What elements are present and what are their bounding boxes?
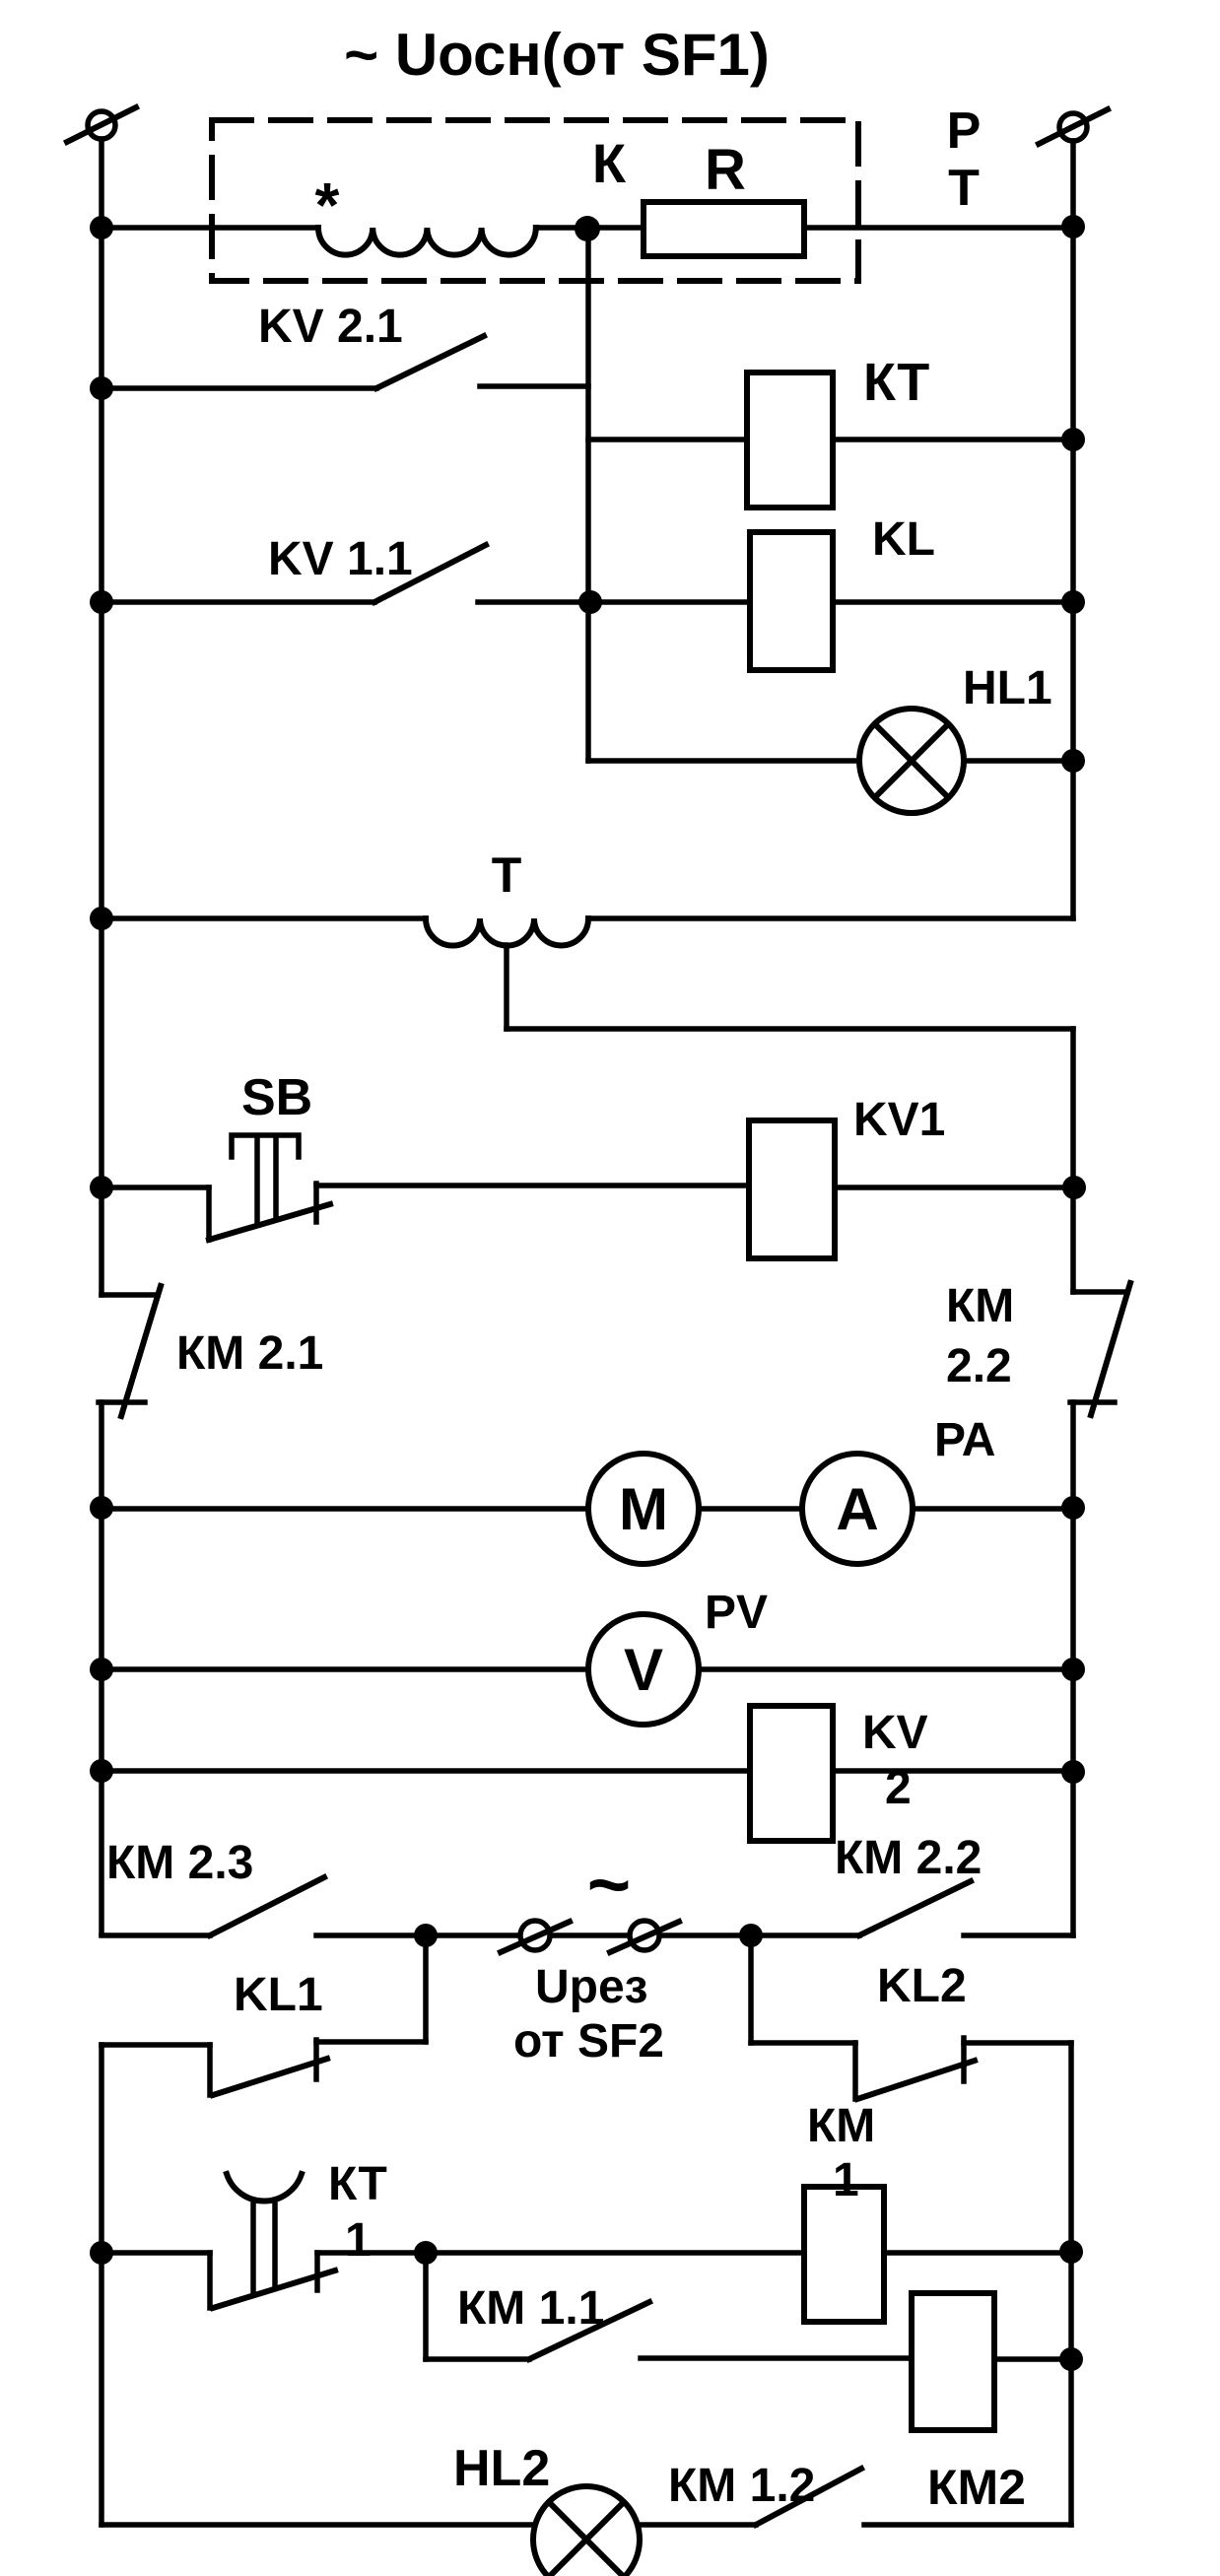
node KV2 row right bbox=[1061, 1760, 1085, 1784]
label K bbox=[592, 132, 627, 194]
svg-text:KV: KV bbox=[862, 1707, 928, 1759]
node HL1 right bbox=[1061, 749, 1085, 773]
label PA bbox=[934, 1414, 995, 1466]
svg-text:КМ: КМ bbox=[807, 2100, 875, 2152]
wire left rail lower bbox=[99, 2045, 104, 2525]
svg-text:~ Uосн(от SF1): ~ Uосн(от SF1) bbox=[344, 22, 770, 88]
wire KM2 to right rail bbox=[994, 2356, 1071, 2362]
terminal left bbox=[67, 107, 136, 142]
label P bbox=[947, 102, 982, 160]
svg-text:PV: PV bbox=[705, 1587, 768, 1639]
wire V row left bbox=[102, 1666, 588, 1672]
node KV1.1 mid bbox=[578, 590, 602, 614]
svg-text:КТ: КТ bbox=[863, 353, 929, 412]
svg-text:HL2: HL2 bbox=[453, 2440, 550, 2497]
wire M row left bbox=[102, 1506, 588, 1512]
label KL1 bbox=[234, 1969, 323, 2021]
node KV1 right bbox=[1062, 1176, 1086, 1199]
contact KV 1.1 bbox=[102, 545, 590, 602]
node V row right bbox=[1061, 1658, 1085, 1681]
label KV 1.1 bbox=[268, 533, 413, 585]
label KT1a bbox=[328, 2158, 387, 2210]
lamp HL1 bbox=[859, 709, 964, 813]
svg-text:КМ 1.1: КМ 1.1 bbox=[457, 2282, 604, 2335]
wire drop left branch bbox=[423, 1935, 429, 2042]
wire top row left bbox=[102, 225, 318, 231]
svg-text:КМ 1.2: КМ 1.2 bbox=[668, 2460, 815, 2512]
label Urez bbox=[535, 1961, 648, 2013]
ammeter A bbox=[802, 1454, 913, 1564]
wire right rail KL2 down bbox=[1068, 2043, 1074, 2252]
contact KM 2.2 vertical bbox=[1070, 1283, 1130, 1935]
node K bbox=[575, 216, 600, 241]
contact KM 2.1 vertical bbox=[99, 1286, 161, 1934]
svg-text:SB: SB bbox=[241, 1069, 312, 1126]
wire T row right bbox=[588, 915, 1073, 921]
label KV bbox=[862, 1707, 928, 1759]
wire M to A bbox=[699, 1506, 802, 1512]
label KM 2.2b bbox=[835, 1832, 982, 1884]
label PV bbox=[705, 1587, 768, 1639]
wire V to right rail bbox=[699, 1666, 1073, 1672]
wire KV1 to right rail bbox=[835, 1185, 1073, 1190]
wire terminal to terminal bbox=[552, 1932, 628, 1938]
wire right rail lower bbox=[1068, 2252, 1074, 2525]
node KV2 row left bbox=[90, 1759, 113, 1783]
svg-text:R: R bbox=[705, 138, 746, 202]
svg-text:КМ 2.3: КМ 2.3 bbox=[106, 1837, 253, 1889]
contact KV 2.1 bbox=[102, 336, 588, 388]
inductor K winding bbox=[318, 228, 536, 255]
svg-text:К: К bbox=[592, 132, 627, 194]
contact KL2 bbox=[751, 2038, 1071, 2099]
node KV2.1 left bbox=[90, 376, 113, 400]
wire KM1 row bbox=[426, 2250, 804, 2256]
wire HL1 row right bbox=[964, 758, 1073, 764]
svg-text:1: 1 bbox=[833, 2154, 859, 2206]
svg-text:от SF2: от SF2 bbox=[513, 2015, 664, 2068]
wire terminal to node bbox=[661, 1932, 751, 1938]
node KV1.1 left bbox=[90, 590, 113, 614]
motor M bbox=[588, 1454, 699, 1564]
label KT1b bbox=[345, 2214, 372, 2267]
label ot SF2 bbox=[513, 2015, 664, 2068]
wire right rail upper bbox=[1070, 141, 1076, 918]
lamp HL2 bbox=[533, 2486, 640, 2576]
svg-text:2.2: 2.2 bbox=[946, 1340, 1012, 1392]
pushbutton SB bbox=[102, 1135, 749, 1240]
node KT1 left bbox=[90, 2241, 113, 2265]
node top left bbox=[90, 216, 113, 239]
label KM1a bbox=[807, 2100, 875, 2152]
contact KT1 time delay bbox=[102, 2174, 426, 2308]
node T row left bbox=[90, 907, 113, 930]
svg-text:1: 1 bbox=[345, 2214, 372, 2267]
node Urez right bbox=[739, 1924, 763, 1947]
contact KM 1.1 bbox=[426, 2253, 912, 2359]
wire T row left bbox=[102, 915, 426, 921]
label KL bbox=[872, 513, 935, 566]
contact KL1 bbox=[102, 2040, 426, 2095]
wire right rail mid bbox=[1070, 1029, 1076, 1292]
node M row left bbox=[90, 1496, 113, 1520]
relay coil KV1 bbox=[749, 1120, 835, 1258]
contact KM 1.2 bbox=[639, 2469, 1071, 2525]
contact KM 2.3 bbox=[102, 1877, 426, 1935]
wire KV2 row right bbox=[833, 1768, 1073, 1774]
svg-text:А: А bbox=[836, 1476, 878, 1542]
relay coil KT bbox=[747, 373, 833, 508]
label HL1 bbox=[963, 662, 1052, 714]
label KV 2.1 bbox=[258, 301, 403, 353]
wire K to resistor bbox=[536, 225, 644, 231]
label KV1 bbox=[853, 1094, 945, 1146]
svg-text:КМ2: КМ2 bbox=[927, 2460, 1026, 2515]
wire KT row right bbox=[833, 437, 1073, 442]
svg-text:КМ: КМ bbox=[946, 1280, 1014, 1332]
wire T tap horizontal bbox=[507, 1026, 1073, 1032]
wire KT row left bbox=[588, 437, 747, 442]
svg-text:KL: KL bbox=[872, 513, 935, 566]
wire HL1 row left bbox=[588, 758, 859, 764]
label R bbox=[705, 138, 746, 202]
dashed box PT bbox=[212, 120, 858, 281]
node top right bbox=[1061, 215, 1085, 238]
resistor R bbox=[644, 202, 804, 256]
svg-text:V: V bbox=[624, 1637, 663, 1703]
relay coil KL bbox=[750, 532, 833, 670]
label KM 1.1 bbox=[457, 2282, 604, 2335]
node KT1 right bbox=[414, 2241, 438, 2265]
label HL2 bbox=[453, 2440, 550, 2497]
svg-text:HL1: HL1 bbox=[963, 662, 1052, 714]
label ~ bbox=[587, 1843, 631, 1927]
label KL2 bbox=[877, 1960, 967, 2012]
title label ~Uosn(ot SF1) bbox=[344, 22, 770, 88]
label KM1b bbox=[833, 2154, 859, 2206]
label KM bbox=[946, 1280, 1014, 1332]
svg-text:Р: Р bbox=[947, 102, 982, 160]
label KT bbox=[863, 353, 929, 412]
node V row left bbox=[90, 1658, 113, 1681]
node KT right bbox=[1061, 428, 1085, 451]
wire bottom row left bbox=[102, 2522, 534, 2528]
transformer T winding bbox=[426, 918, 588, 945]
node Urez left bbox=[414, 1924, 438, 1947]
wire node to terminal 1 bbox=[426, 1932, 517, 1938]
svg-text:KV 2.1: KV 2.1 bbox=[258, 301, 403, 353]
wire left rail upper bbox=[99, 139, 104, 1295]
wire node K down bbox=[585, 228, 591, 761]
label KM 2.3 bbox=[106, 1837, 253, 1889]
svg-text:КТ: КТ bbox=[328, 2158, 387, 2210]
wire KV2 row left bbox=[102, 1768, 750, 1774]
node M row right bbox=[1061, 1496, 1085, 1520]
node KM2 right bbox=[1059, 2347, 1083, 2371]
terminal right bbox=[1039, 109, 1108, 144]
svg-text:~: ~ bbox=[587, 1843, 631, 1927]
asterisk polarity mark bbox=[315, 169, 340, 240]
node KL right bbox=[1061, 590, 1085, 614]
wire drop right branch bbox=[748, 1935, 754, 2043]
svg-text:KL2: KL2 bbox=[877, 1960, 967, 2012]
svg-text:Т: Т bbox=[492, 847, 522, 903]
svg-text:*: * bbox=[315, 169, 340, 240]
label 2 bbox=[885, 1762, 912, 1814]
svg-text:KV1: KV1 bbox=[853, 1094, 945, 1146]
wire KM1 to right rail bbox=[884, 2250, 1071, 2256]
svg-text:КМ 2.1: КМ 2.1 bbox=[176, 1327, 323, 1380]
wire T tap down bbox=[504, 945, 509, 1029]
node SB left bbox=[90, 1176, 113, 1199]
wire KL row left bbox=[590, 599, 750, 605]
svg-text:KV 1.1: KV 1.1 bbox=[268, 533, 413, 585]
relay coil KM2 bbox=[912, 2293, 994, 2430]
svg-text:КМ 2.2: КМ 2.2 bbox=[835, 1832, 982, 1884]
relay coil KM1 bbox=[804, 2187, 884, 2322]
wire A to right rail bbox=[913, 1506, 1073, 1512]
wire KL row right bbox=[833, 599, 1073, 605]
contact KM 2.2b bbox=[751, 1881, 1073, 1935]
svg-text:KL1: KL1 bbox=[234, 1969, 323, 2021]
svg-text:Uрез: Uрез bbox=[535, 1961, 648, 2013]
svg-text:Т: Т bbox=[948, 160, 980, 217]
label KM 1.2 bbox=[668, 2460, 815, 2512]
svg-text:РА: РА bbox=[934, 1414, 995, 1466]
label T of PT bbox=[948, 160, 980, 217]
label SB bbox=[241, 1069, 312, 1126]
label KM2 coil bbox=[927, 2460, 1026, 2515]
label KM 2.1 bbox=[176, 1327, 323, 1380]
terminal Urez left bbox=[501, 1921, 570, 1952]
label T bbox=[492, 847, 522, 903]
node KM1 right bbox=[1059, 2240, 1083, 2264]
relay coil KV2 bbox=[750, 1706, 833, 1841]
terminal Urez right bbox=[610, 1921, 679, 1952]
wire resistor to right rail bbox=[804, 225, 1073, 231]
voltmeter V bbox=[588, 1614, 699, 1725]
svg-text:М: М bbox=[619, 1476, 668, 1542]
label 2.2 bbox=[946, 1340, 1012, 1392]
